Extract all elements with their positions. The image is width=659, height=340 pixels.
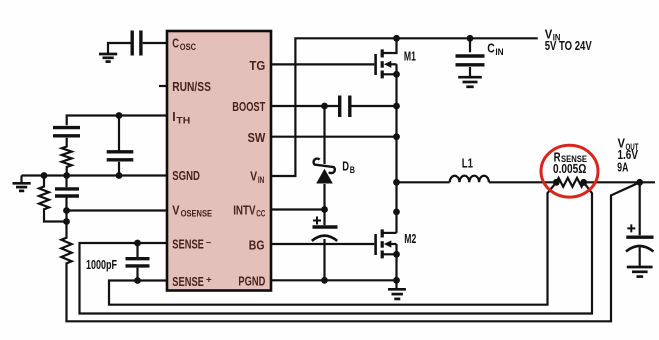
svg-text:OSENSE: OSENSE <box>181 208 213 219</box>
svg-text:SENSE: SENSE <box>172 236 204 251</box>
svg-text:SGND: SGND <box>172 168 200 183</box>
svg-text:M2: M2 <box>404 232 416 246</box>
svg-text:CC: CC <box>256 208 265 219</box>
svg-text:D: D <box>342 160 349 174</box>
svg-text:9A: 9A <box>617 161 628 175</box>
svg-text:SENSE: SENSE <box>172 274 204 289</box>
svg-text:M1: M1 <box>404 49 416 63</box>
svg-text:RUN/SS: RUN/SS <box>172 79 211 94</box>
svg-text:B: B <box>350 165 355 176</box>
svg-text:I: I <box>172 109 175 124</box>
svg-text:V: V <box>250 169 257 184</box>
svg-text:+: + <box>206 274 212 285</box>
svg-text:TH: TH <box>176 114 190 125</box>
svg-text:BG: BG <box>249 237 265 252</box>
svg-text:TG: TG <box>249 58 265 73</box>
svg-text:5V TO 24V: 5V TO 24V <box>545 39 592 53</box>
svg-text:OSC: OSC <box>180 41 196 52</box>
svg-text:C: C <box>487 41 495 55</box>
svg-text:BOOST: BOOST <box>232 99 265 114</box>
svg-text:C: C <box>172 36 179 51</box>
svg-text:INTV: INTV <box>233 202 256 217</box>
svg-text:IN: IN <box>495 47 503 58</box>
svg-text:IN: IN <box>258 174 265 185</box>
svg-text:L1: L1 <box>462 157 473 171</box>
svg-text:V: V <box>172 202 179 217</box>
svg-text:0.005Ω: 0.005Ω <box>553 162 586 176</box>
svg-text:1000pF: 1000pF <box>86 258 117 272</box>
svg-text:SW: SW <box>248 130 266 145</box>
svg-text:PGND: PGND <box>238 274 265 289</box>
svg-text:–: – <box>206 236 211 247</box>
